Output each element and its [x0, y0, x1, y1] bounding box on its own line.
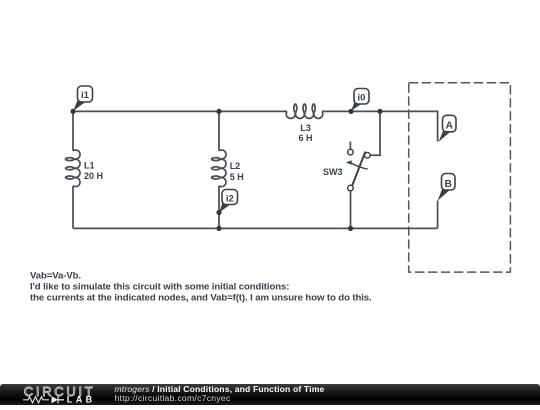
switch SW3 throw terminal circle (closed) — [365, 153, 371, 159]
switch SW3 throw terminal circle (open) — [348, 149, 354, 155]
switch SW3 lever — [352, 152, 366, 187]
wire L2 top lead — [218, 111, 220, 150]
callout i1 — [73, 86, 92, 111]
junction dot top rail switch branch — [377, 109, 382, 114]
svg-text:I'd like to simulate this circ: I'd like to simulate this circuit with s… — [30, 282, 289, 293]
svg-text:the currents at the indicated: the currents at the indicated nodes, and… — [30, 292, 372, 303]
inductor L1 — [66, 150, 80, 187]
svg-text:i1: i1 — [81, 90, 90, 101]
switch SW3 pole terminal circle — [348, 185, 354, 191]
callout i2 — [219, 190, 237, 213]
dashed probe region box — [409, 83, 511, 272]
junction dot top rail i0 probe — [348, 109, 353, 114]
svg-text:L2: L2 — [230, 161, 241, 171]
svg-text:A: A — [445, 121, 453, 132]
footer logo schematic squiggle — [23, 397, 49, 403]
wire top right segment with drop to node A — [322, 111, 438, 141]
svg-text:20 H: 20 H — [84, 171, 103, 181]
callout i0 — [351, 89, 369, 111]
svg-text:5 H: 5 H — [230, 172, 244, 182]
wire L2 bottom lead — [218, 186, 220, 229]
svg-text:L1: L1 — [84, 160, 95, 170]
svg-text:i0: i0 — [358, 93, 366, 104]
svg-text:i2: i2 — [226, 193, 234, 204]
wire switch pole to bottom rail — [350, 191, 352, 229]
svg-text:B: B — [444, 179, 451, 190]
wire L1 top lead — [72, 111, 74, 150]
junction dot i2 probe — [216, 210, 221, 215]
svg-text:SW3: SW3 — [323, 167, 343, 177]
svg-text:L3: L3 — [300, 123, 311, 133]
svg-text:http://circuitlab.com/c7cnyec: http://circuitlab.com/c7cnyec — [115, 393, 231, 403]
switch SW3 throw stub — [349, 142, 351, 150]
junction dot node i1 corner — [70, 109, 75, 114]
junction dot bottom rail L2 — [216, 226, 221, 231]
switch SW3 actuation arrow — [352, 163, 368, 169]
wire top left segment — [73, 110, 287, 112]
svg-text:6 H: 6 H — [298, 133, 312, 143]
callout node A — [439, 115, 456, 141]
wire bottom rail — [73, 227, 438, 229]
wire node B drop — [437, 201, 439, 229]
junction dot top rail L2 — [216, 109, 221, 114]
junction dot bottom rail switch — [348, 226, 353, 231]
inductor L3 — [286, 104, 323, 118]
footer bar — [0, 384, 540, 405]
wire L1 bottom lead — [72, 186, 74, 229]
inductor L2 — [212, 150, 226, 187]
svg-text:LAB: LAB — [67, 395, 96, 405]
wire switch branch from top rail — [370, 111, 380, 155]
svg-text:Vab=Va-Vb.: Vab=Va-Vb. — [30, 271, 81, 282]
callout node B — [438, 174, 455, 201]
